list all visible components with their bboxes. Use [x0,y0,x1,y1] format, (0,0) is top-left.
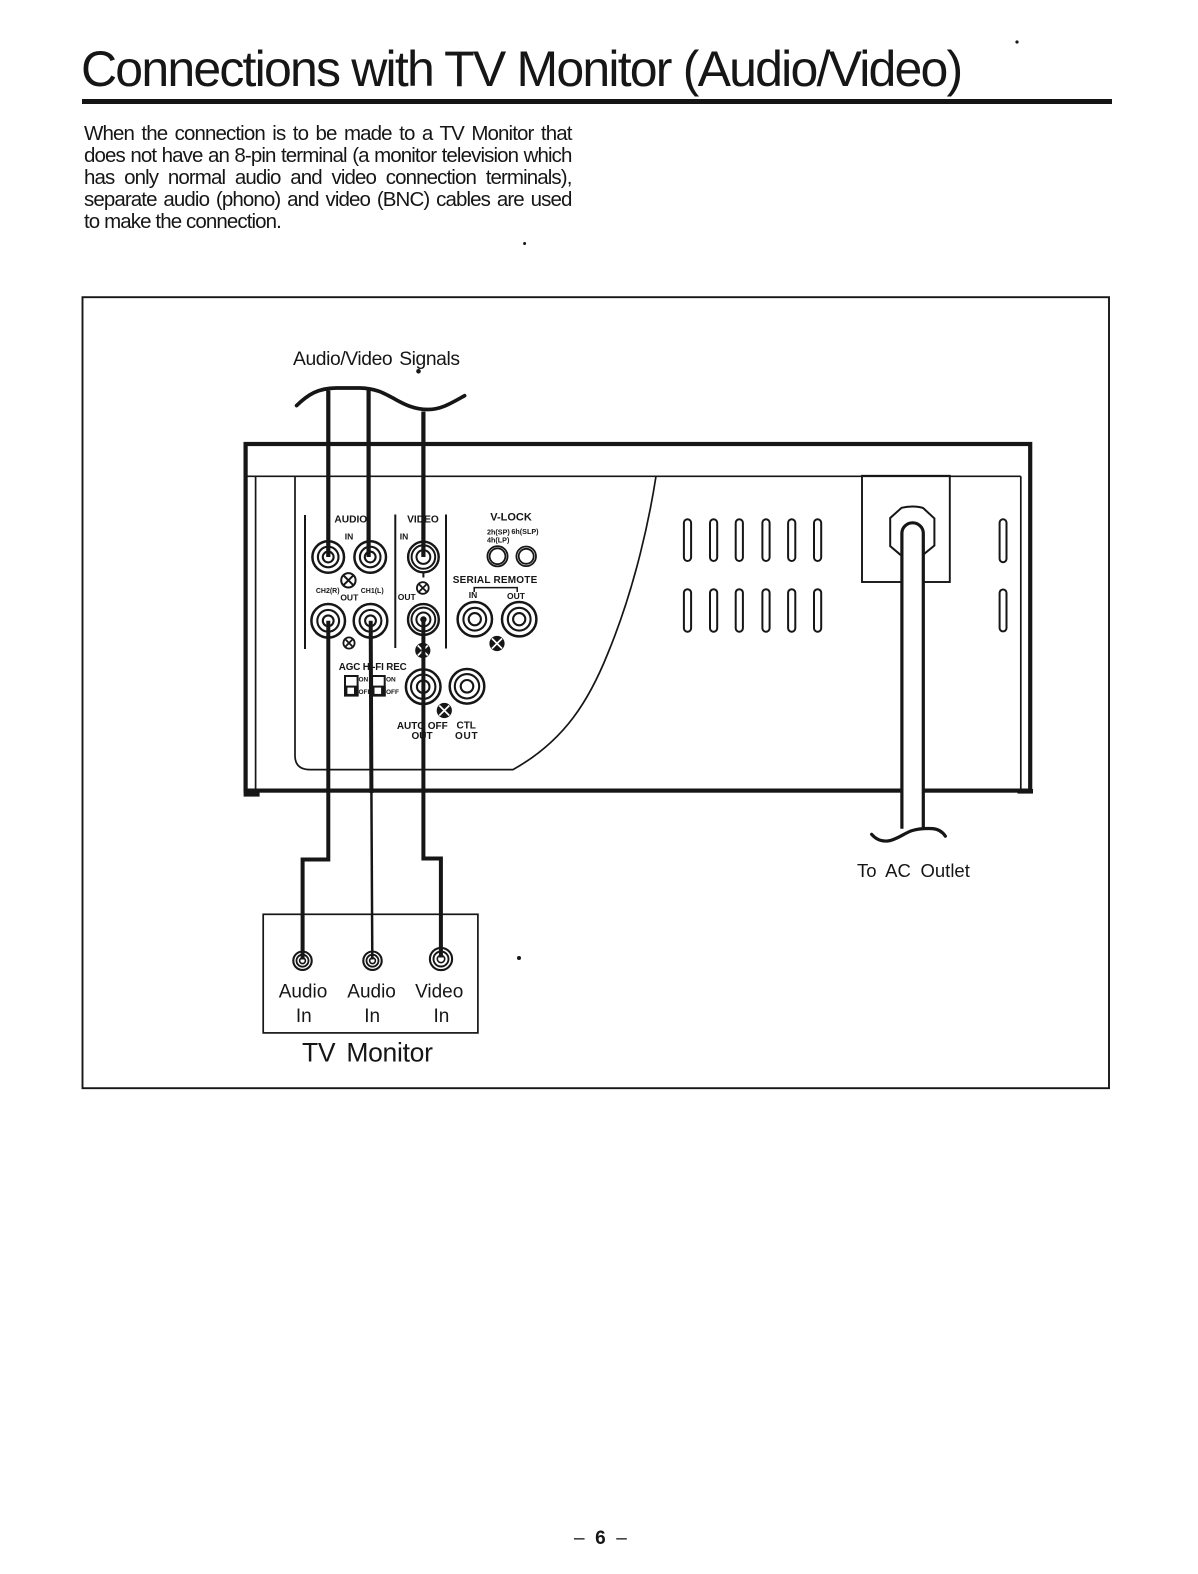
V-LOCK button 2h(SP)/4h(LP) [487,546,507,566]
svg-text:IN: IN [400,531,409,541]
svg-text:SERIAL REMOTE: SERIAL REMOTE [453,575,538,586]
audio cable 1 lower segment to monitor [303,621,329,960]
monitor jack audio in 2 [363,952,381,970]
svg-text:TV Monitor: TV Monitor [302,1038,433,1068]
svg-text:OFF: OFF [386,689,399,696]
monitor jack video in [430,948,452,970]
jack AUDIO OUT CH2(R) [311,604,345,638]
AGC slide switch 2 [371,676,386,697]
video cable upper segment [421,412,425,558]
svg-text:6h(SLP): 6h(SLP) [511,527,539,536]
section divider bar right of VIDEO [445,515,447,649]
screw below video out jack (filled) [415,643,430,658]
stray dot above video cable [416,369,421,374]
jack SERIAL REMOTE OUT [502,602,536,636]
jack AUTO OFF OUT [406,669,441,704]
svg-text:Audio: Audio [347,982,396,1003]
video cable lower segment to monitor [423,620,441,958]
audio cable 1 upper segment [326,391,330,558]
svg-text:Audio/Video Signals: Audio/Video Signals [293,349,460,370]
audio cable 2 upper segment [367,390,371,558]
svg-text:OUT: OUT [455,731,479,742]
svg-text:In: In [433,1006,449,1027]
VCR rear-panel outline [246,444,1031,791]
jack CTL OUT [450,669,485,704]
screw below video in jack [417,582,429,594]
vent slots right column [1000,519,1007,562]
AC cord strain-relief plate [862,476,950,582]
jack VIDEO IN (BNC) [408,542,439,573]
AC cord [902,523,923,829]
AGC slide switch 1 [344,676,359,697]
intro paragraph [84,123,572,234]
section divider bar between AUDIO and VIDEO [394,515,396,649]
svg-text:ON: ON [386,677,396,684]
svg-text:OUT: OUT [340,593,359,603]
video in jack bottom tab [422,572,424,577]
svg-text:V-LOCK: V-LOCK [490,512,532,524]
screw between audio in jacks [341,573,355,587]
title rule [82,99,1112,104]
AC plug boot [890,507,934,555]
VCR left inner edge line [255,476,257,788]
wavy cable-break curve above VCR [297,388,465,410]
jack SERIAL REMOTE IN [458,602,492,636]
V-LOCK button 6h(SLP) [516,547,536,567]
jack AUDIO IN CH1(L) [354,541,386,573]
svg-text:Audio: Audio [279,982,328,1003]
vent slots row 1 [684,519,821,561]
audio cable 2 lower segment to monitor [369,621,374,793]
svg-text:CH1(L): CH1(L) [361,588,384,595]
jack AUDIO IN CH2(R) [312,541,344,573]
stray dot right of monitor jacks [517,956,521,960]
screw below audio out jacks [343,637,354,648]
screw below serial remote jacks (filled) [489,636,504,651]
monitor jack audio in 1 [293,952,311,970]
serial remote bracket [474,588,517,592]
svg-text:ON: ON [359,677,369,684]
page number [574,1528,627,1550]
AC cord break squiggle [872,828,946,841]
section divider bar left of AUDIO [304,515,306,649]
svg-text:OUT: OUT [507,591,526,601]
svg-text:To AC Outlet: To AC Outlet [857,860,970,881]
TV monitor box [263,914,478,1033]
svg-text:Video: Video [415,982,463,1003]
svg-text:In: In [364,1006,380,1027]
svg-text:In: In [296,1006,312,1027]
vent slots row 2 [684,589,821,632]
svg-text:IN: IN [345,531,354,541]
VCR right inner edge line [1020,476,1022,788]
svg-text:IN: IN [469,590,478,600]
svg-text:CTL: CTL [456,721,475,732]
svg-text:OUT: OUT [398,592,417,602]
stray dot top right [1015,40,1018,43]
page title [81,40,961,98]
connector recess outline with sweeping curve [295,476,656,769]
stray dot near paragraph [523,242,526,245]
svg-text:AUDIO: AUDIO [334,515,367,526]
screw beside auto off jack (filled) [437,703,452,718]
svg-text:CH2(R): CH2(R) [316,588,340,595]
VCR left foot [244,791,260,797]
svg-text:4h(LP): 4h(LP) [487,536,510,545]
diagram frame box [83,297,1110,1088]
jack AUDIO OUT CH1(L) [354,604,388,638]
VCR top band lower edge [247,475,1021,477]
jack VIDEO OUT (BNC) [408,604,439,635]
VCR right foot [1018,789,1034,794]
